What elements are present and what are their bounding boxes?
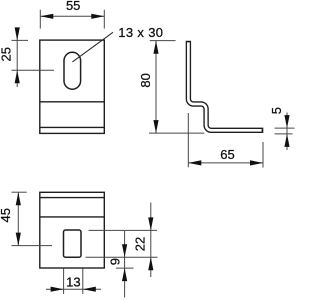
svg-text:13: 13 <box>66 274 80 289</box>
svg-text:80: 80 <box>138 73 153 87</box>
svg-text:45: 45 <box>0 208 13 222</box>
svg-text:5: 5 <box>269 107 284 114</box>
svg-text:22: 22 <box>132 237 147 251</box>
svg-text:13 x 30: 13 x 30 <box>118 25 163 40</box>
svg-text:65: 65 <box>220 147 234 162</box>
svg-text:25: 25 <box>0 47 13 61</box>
svg-text:55: 55 <box>66 0 80 13</box>
svg-text:9: 9 <box>108 258 123 265</box>
